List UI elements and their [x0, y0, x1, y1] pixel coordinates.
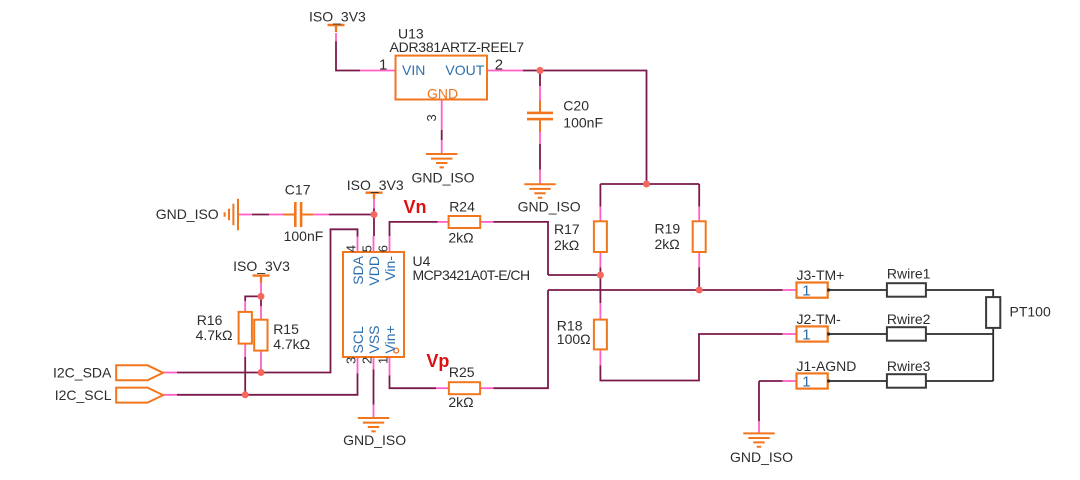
svg-text:100nF: 100nF [284, 228, 324, 244]
svg-text:R19: R19 [655, 221, 681, 237]
svg-text:Vin+: Vin+ [382, 325, 398, 353]
svg-text:C20: C20 [563, 98, 589, 114]
svg-text:SDA: SDA [350, 255, 366, 284]
svg-text:Vn: Vn [404, 197, 427, 217]
svg-text:2kΩ: 2kΩ [554, 237, 579, 253]
svg-text:Rwire2: Rwire2 [887, 311, 931, 327]
svg-text:ISO_3V3: ISO_3V3 [347, 177, 404, 193]
svg-text:2kΩ: 2kΩ [655, 236, 680, 252]
svg-text:Rwire3: Rwire3 [887, 358, 931, 374]
svg-text:GND_ISO: GND_ISO [730, 449, 793, 465]
svg-text:1: 1 [802, 283, 810, 300]
svg-text:ISO_3V3: ISO_3V3 [233, 258, 290, 274]
svg-text:5: 5 [360, 245, 375, 252]
svg-text:Vp: Vp [426, 351, 449, 371]
svg-text:2: 2 [495, 57, 503, 74]
svg-text:GND_ISO: GND_ISO [156, 206, 219, 222]
svg-text:4: 4 [344, 245, 359, 252]
svg-text:4.7kΩ: 4.7kΩ [273, 336, 310, 352]
svg-text:J3-TM+: J3-TM+ [797, 267, 845, 283]
svg-text:R25: R25 [449, 364, 475, 380]
svg-text:R17: R17 [554, 221, 580, 237]
svg-text:2kΩ: 2kΩ [448, 229, 473, 245]
svg-text:PT100: PT100 [1010, 303, 1051, 319]
svg-text:2kΩ: 2kΩ [448, 394, 473, 410]
svg-text:MCP3421A0T-E/CH: MCP3421A0T-E/CH [413, 267, 530, 283]
svg-text:J2-TM-: J2-TM- [797, 311, 842, 327]
svg-text:GND_ISO: GND_ISO [343, 432, 406, 448]
svg-text:1: 1 [802, 374, 810, 391]
svg-text:Rwire1: Rwire1 [887, 266, 931, 282]
svg-text:1: 1 [376, 357, 391, 364]
svg-text:VOUT: VOUT [445, 62, 484, 78]
svg-text:GND_ISO: GND_ISO [412, 170, 475, 186]
svg-text:C17: C17 [285, 181, 311, 197]
svg-text:VDD: VDD [366, 256, 382, 286]
svg-text:1: 1 [802, 327, 810, 344]
svg-text:1: 1 [379, 57, 387, 74]
svg-text:R15: R15 [273, 321, 299, 337]
svg-text:J1-AGND: J1-AGND [797, 358, 857, 374]
svg-text:VIN: VIN [402, 62, 425, 78]
svg-text:6: 6 [376, 245, 391, 252]
svg-text:4.7kΩ: 4.7kΩ [196, 327, 233, 343]
svg-text:100Ω: 100Ω [557, 331, 591, 347]
svg-text:SCL: SCL [350, 326, 366, 353]
svg-text:ADR381ARTZ-REEL7: ADR381ARTZ-REEL7 [390, 39, 525, 55]
svg-text:Vin-: Vin- [382, 256, 398, 281]
svg-text:R16: R16 [197, 312, 223, 328]
svg-text:I2C_SDA: I2C_SDA [53, 365, 112, 381]
svg-text:GND: GND [427, 85, 458, 101]
svg-text:3: 3 [344, 357, 359, 364]
svg-text:ISO_3V3: ISO_3V3 [309, 8, 366, 24]
svg-text:I2C_SCL: I2C_SCL [55, 387, 112, 403]
svg-text:GND_ISO: GND_ISO [518, 199, 581, 215]
svg-text:VSS: VSS [366, 325, 382, 353]
svg-text:3: 3 [424, 114, 439, 121]
svg-text:100nF: 100nF [563, 115, 603, 131]
svg-text:2: 2 [360, 357, 375, 364]
svg-text:R24: R24 [449, 198, 475, 214]
